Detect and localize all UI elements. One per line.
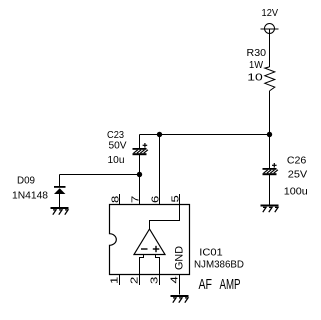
svg-text:6: 6: [149, 196, 161, 203]
svg-text:25V: 25V: [288, 169, 308, 181]
wire C26 top lead: [269, 135, 271, 169]
svg-text:12V: 12V: [262, 7, 279, 19]
svg-text:NJM386BD: NJM386BD: [194, 259, 244, 271]
op-amp minus: [141, 248, 148, 250]
svg-text:4: 4: [168, 276, 180, 283]
wire pin 4 to ground: [179, 285, 181, 295]
wire junction to pin 7: [139, 175, 141, 205]
op-amp plus: [153, 246, 160, 252]
power terminal 12V: [261, 24, 279, 34]
ground below D09: [51, 208, 69, 215]
pin 3 stub: [159, 275, 161, 286]
wire pin 2 to inverting input: [140, 255, 144, 275]
junction node pin6: [157, 132, 162, 137]
svg-text:D09: D09: [17, 175, 35, 187]
svg-text:7: 7: [129, 196, 141, 203]
resistor R30: [265, 67, 275, 91]
svg-text:R30: R30: [247, 47, 267, 59]
pin 5 stub: [179, 194, 181, 205]
svg-text:3: 3: [148, 277, 160, 284]
svg-text:2: 2: [128, 277, 140, 284]
wire diode to ground: [59, 194, 61, 208]
ground below pin 4: [171, 296, 189, 303]
svg-text:AMP: AMP: [220, 276, 241, 293]
wire C26 to ground: [269, 175, 271, 204]
wire diode top lead: [59, 175, 61, 187]
svg-text:AF: AF: [199, 276, 213, 293]
junction node right: [267, 132, 272, 137]
pin 8 stub: [119, 194, 121, 205]
pin 7 stub: [139, 194, 141, 205]
op-amp triangle U1: [134, 229, 165, 255]
wire C23 bottom lead: [139, 155, 141, 174]
svg-text:100u: 100u: [284, 186, 308, 198]
diode D09: [54, 186, 66, 194]
junction node pin7: [137, 172, 142, 177]
wire pin 3 to non-inverting input: [156, 255, 160, 275]
svg-text:1N4148: 1N4148: [12, 190, 48, 202]
wire op-amp output to pin 5: [150, 205, 180, 230]
wire 12V to R30: [269, 29, 271, 67]
svg-text:IC01: IC01: [199, 247, 223, 259]
svg-text:10u: 10u: [108, 154, 125, 166]
svg-text:1W: 1W: [249, 59, 263, 71]
wire C23 top lead: [139, 135, 141, 149]
pin 1 stub: [119, 275, 121, 286]
IC body IC01 DIP outline: [110, 205, 190, 275]
pin 6 stub: [159, 194, 161, 205]
capacitor C23: [133, 143, 148, 155]
pin 4 stub: [179, 275, 181, 286]
svg-text:10: 10: [247, 72, 263, 84]
ground below C26: [261, 206, 279, 213]
wire horizontal to diode: [60, 174, 140, 176]
svg-text:50V: 50V: [109, 140, 127, 152]
svg-text:C26: C26: [287, 155, 307, 167]
wire R30 to node: [269, 91, 271, 135]
svg-text:8: 8: [109, 196, 121, 203]
svg-text:1: 1: [108, 277, 120, 284]
pin 2 stub: [139, 275, 141, 286]
wire node to pin 6: [159, 135, 161, 205]
svg-text:5: 5: [169, 195, 181, 202]
svg-text:GND: GND: [174, 246, 186, 270]
capacitor C26: [263, 163, 278, 175]
wire main horizontal: [140, 134, 270, 136]
